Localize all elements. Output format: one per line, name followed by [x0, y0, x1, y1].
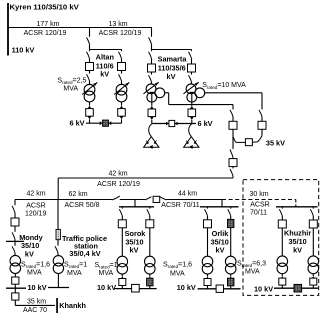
svg-text:10 kV: 10 kV: [97, 283, 116, 292]
svg-text:177 km: 177 km: [37, 21, 60, 28]
svg-text:kV: kV: [25, 249, 34, 258]
svg-text:35 km: 35 km: [27, 298, 46, 305]
svg-text:10 kV: 10 kV: [254, 285, 273, 294]
svg-text:kV: kV: [293, 245, 302, 254]
svg-text:Srated=2,5: Srated=2,5: [57, 77, 86, 85]
svg-text:110/35/6: 110/35/6: [158, 63, 186, 72]
svg-text:Altan: Altan: [96, 53, 114, 62]
svg-text:Srated=1,6: Srated=1,6: [163, 262, 192, 270]
svg-text:ACSR 120/19: ACSR 120/19: [24, 30, 67, 37]
svg-text:kV: kV: [167, 72, 176, 81]
svg-text:kV: kV: [130, 246, 139, 255]
svg-text:AAC 70: AAC 70: [23, 307, 47, 314]
svg-text:42 km: 42 km: [26, 190, 45, 197]
svg-text:ACSR 50/8: ACSR 50/8: [64, 202, 99, 209]
svg-text:ACSR: ACSR: [26, 203, 45, 210]
svg-text:MVA: MVA: [170, 270, 185, 277]
svg-text:MVA: MVA: [99, 270, 114, 277]
svg-text:ACSR 70/11: ACSR 70/11: [161, 202, 199, 209]
svg-text:30 km: 30 km: [249, 191, 268, 198]
svg-text:Samarta: Samarta: [158, 55, 188, 64]
svg-text:ACSR: ACSR: [250, 201, 269, 208]
svg-text:35 kV: 35 kV: [266, 139, 285, 148]
svg-text:42 km: 42 km: [108, 171, 127, 178]
svg-text:kV: kV: [100, 69, 109, 78]
svg-text:35/0,4 kV: 35/0,4 kV: [69, 249, 100, 258]
svg-text:Srated=6,3: Srated=6,3: [237, 260, 266, 268]
svg-text:70/11: 70/11: [250, 209, 267, 216]
svg-text:MVA: MVA: [245, 268, 260, 275]
svg-text:6 kV: 6 kV: [70, 119, 85, 128]
svg-text:6 kV: 6 kV: [198, 119, 213, 128]
svg-text:MVA: MVA: [67, 270, 82, 277]
svg-text:Khankh: Khankh: [59, 301, 86, 310]
svg-text:Khuzhir: Khuzhir: [284, 229, 311, 238]
svg-text:ACSR 120/19: ACSR 120/19: [99, 30, 142, 37]
svg-text:44 km: 44 km: [178, 190, 197, 197]
svg-text:62 km: 62 km: [68, 191, 87, 198]
svg-text:Srated=1,6: Srated=1,6: [21, 262, 50, 270]
svg-text:MVA: MVA: [63, 85, 78, 92]
svg-text:Kyren 110/35/10 kV: Kyren 110/35/10 kV: [10, 3, 80, 12]
svg-text:10 kV: 10 kV: [177, 283, 196, 292]
svg-text:kV: kV: [216, 245, 225, 254]
svg-text:120/19: 120/19: [25, 210, 47, 217]
svg-text:110 kV: 110 kV: [12, 45, 35, 54]
svg-text:ACSR 120/19: ACSR 120/19: [97, 181, 140, 188]
svg-text:10 kV: 10 kV: [28, 283, 47, 292]
svg-text:13 km: 13 km: [108, 21, 127, 28]
svg-text:MVA: MVA: [27, 269, 42, 276]
